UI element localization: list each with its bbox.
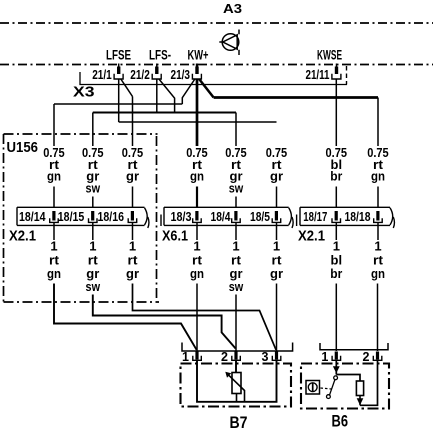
wire col6 below strip (276, 222, 278, 240)
svg-text:gn: gn (190, 169, 204, 184)
wire col3 upper (132, 97, 134, 147)
wire col8 upper (377, 98, 379, 147)
wire col5 upper (235, 113, 237, 147)
wire col7 to strip (335, 187, 337, 208)
wire 21/3 KW+ down bold (196, 79, 199, 146)
svg-text:21/1: 21/1 (92, 68, 112, 82)
svg-text:B7: B7 (230, 414, 248, 432)
B6 switch upper contact (334, 376, 338, 380)
connector pin 21/2 (156, 64, 158, 68)
B7 wiper arrowhead (225, 372, 231, 378)
wire col1 below strip (53, 222, 55, 240)
sensor B6 dash-dot box (301, 364, 389, 409)
B7 internal wire pin3 down (245, 360, 277, 402)
B6 mechanical link dashed (321, 388, 332, 389)
svg-text:1: 1 (321, 350, 328, 364)
B6 arrow down at resistor bottom (357, 398, 364, 405)
connector X3 bracket (80, 72, 347, 85)
svg-text:21/2: 21/2 (130, 68, 150, 82)
B7 resistor bottom lead (236, 394, 238, 402)
wire label col1 1 rt gn (47, 239, 61, 282)
B6 pin 1 (335, 352, 338, 360)
wire col6 to strip (276, 187, 278, 208)
svg-text:B6: B6 (332, 413, 349, 431)
svg-text:gn: gn (47, 169, 61, 184)
wire label col5 1 rt gr sw (229, 239, 244, 295)
wire label col6 0.75 rt gr (266, 145, 288, 183)
strip pin 18/4 (234, 211, 237, 221)
connector strip X2.1 right (297, 207, 395, 228)
wire col8 down to B6 pin2 (377, 284, 379, 352)
svg-text:1: 1 (182, 350, 189, 364)
strip pin 18/18 (376, 211, 379, 221)
svg-text:KW+: KW+ (188, 48, 209, 63)
B6 sensor element circle (308, 383, 317, 392)
wire label col8 1 rt gn (371, 239, 385, 282)
B7 pin header bracket (182, 343, 293, 352)
connector pin 21/3 (196, 64, 198, 68)
svg-text:18/15: 18/15 (58, 209, 85, 224)
wire col2 down and across to B7 pin2 (93, 295, 236, 349)
svg-text:br: br (330, 169, 342, 184)
svg-text:A3: A3 (223, 2, 242, 16)
svg-text:1: 1 (89, 239, 96, 254)
strip pin 18/14 (52, 211, 55, 221)
wire label col3 0.75 rt gr (122, 145, 144, 183)
wire col2 below strip (92, 222, 94, 240)
strip pin 18/5 (275, 211, 278, 221)
wire col3 down and across to B7 pin3 (133, 284, 277, 350)
wire LFS- run col2 to col5 (93, 112, 236, 114)
strip pin 18/16 (131, 211, 134, 221)
svg-text:21/11: 21/11 (306, 68, 330, 82)
svg-text:1: 1 (129, 239, 136, 254)
connector strip X2.1 left (17, 207, 149, 228)
wire 21/1 diagonal to col3 (121, 79, 133, 97)
wire label col5 0.75 rt gr sw (225, 145, 247, 195)
svg-text:21/3: 21/3 (171, 68, 191, 82)
svg-text:gr: gr (270, 266, 283, 281)
connector strip X6.1 (161, 207, 293, 228)
svg-text:gr: gr (126, 266, 139, 281)
B6 sensor element square (306, 381, 320, 395)
svg-text:18/18: 18/18 (345, 209, 371, 224)
wire label col4 1 rt gn (190, 239, 204, 282)
B7 wiper arrow diagonal (229, 375, 245, 402)
wire col2 upper (92, 113, 94, 147)
svg-text:gn: gn (371, 266, 385, 281)
B6 switch lever (330, 380, 335, 395)
B7 pin 2 (234, 352, 237, 360)
wire col4 down to B7 pin1 (196, 284, 198, 352)
wire 21/1 down (118, 79, 120, 122)
svg-text:gn: gn (190, 266, 204, 281)
svg-text:X6.1: X6.1 (162, 229, 188, 245)
B7 pin 1 (195, 352, 198, 360)
svg-text:KWSE: KWSE (317, 48, 342, 63)
svg-text:1: 1 (374, 239, 381, 254)
wire col7 down to B6 pin1 (335, 284, 337, 352)
wire label col8 0.75 rt gn (367, 145, 389, 183)
svg-text:X2.1: X2.1 (9, 229, 36, 245)
connector pin 21/11 (336, 64, 338, 68)
wire col5 below strip (235, 222, 237, 240)
wire col1 upper (53, 104, 55, 146)
wire col5 to strip (235, 197, 237, 208)
wire 21/2 diagonal (159, 79, 175, 113)
wire label col7 1 bl br (330, 239, 342, 282)
horn symbol in A3 (219, 30, 239, 56)
wire col6 down to B7 pin3 (276, 284, 278, 352)
svg-text:1: 1 (50, 239, 57, 254)
wire LFSE run to col6 (119, 121, 277, 123)
wire KW+ run to col8 bold (214, 96, 378, 99)
svg-text:18/17: 18/17 (303, 209, 327, 224)
wire label col7 0.75 bl br (326, 145, 348, 183)
B6 arrow down on pin1 wire (333, 366, 340, 373)
B6 internal wire pin1 down (335, 360, 337, 374)
strip pin 18/17 (335, 211, 338, 221)
svg-text:2: 2 (221, 350, 228, 364)
wire col1 down and across to B7 pin1 (54, 284, 197, 350)
wire col4 below strip (196, 222, 198, 240)
wire col1 to strip (53, 187, 55, 208)
B6 internal wire pin2 down (360, 360, 378, 405)
svg-text:gr: gr (270, 169, 283, 184)
B6 pin header bracket (320, 343, 388, 350)
strip pin 18/3 (195, 211, 198, 221)
connector pin 21/1 (118, 64, 120, 68)
svg-text:18/16: 18/16 (98, 209, 125, 224)
wire col2 to strip (92, 197, 94, 208)
svg-text:X2.1: X2.1 (298, 229, 325, 245)
B7 internal wire pin2 to resistor (235, 360, 237, 372)
wire 21/3 diagonal left (182, 79, 195, 104)
wire col7 below strip (335, 222, 337, 240)
svg-text:1: 1 (273, 239, 280, 254)
strip pin 18/15 (91, 211, 94, 221)
B6 sensor element bar (312, 383, 314, 391)
svg-text:U156: U156 (7, 140, 39, 156)
wire col4 to strip (196, 187, 198, 208)
svg-text:1: 1 (333, 239, 340, 254)
svg-text:sw: sw (229, 180, 244, 195)
svg-text:1: 1 (232, 239, 239, 254)
svg-text:18/4: 18/4 (211, 209, 232, 224)
svg-text:3: 3 (262, 350, 269, 364)
wire 21/11 down col7 (335, 79, 337, 146)
wire label col2 1 rt gr sw (86, 239, 101, 295)
B6 pin 2 (376, 352, 379, 360)
svg-text:LFSE: LFSE (106, 48, 131, 63)
B6 resistor body (356, 381, 363, 396)
svg-text:sw: sw (229, 279, 244, 294)
svg-text:1: 1 (193, 239, 200, 254)
svg-text:X3: X3 (73, 85, 95, 101)
B7 internal wire pin1 down (197, 360, 245, 402)
sensor B7 dash-dot box (181, 364, 292, 407)
B6 wire junction to resistor (336, 375, 360, 382)
component A3 boundary (top dash-dot line) (0, 22, 433, 24)
svg-text:gr: gr (126, 169, 139, 184)
B6 resistor bottom lead (359, 396, 361, 406)
wire label col3 1 rt gr (126, 239, 139, 282)
wire label col2 0.75 rt gr sw (82, 145, 104, 195)
B7 pin 3 (275, 352, 278, 360)
control unit U156 dash-dot box (4, 134, 160, 302)
svg-text:br: br (330, 266, 342, 281)
svg-text:gn: gn (371, 169, 385, 184)
wire label col6 1 rt gr (270, 239, 283, 282)
harness boundary (second dash-dot line) (0, 64, 433, 66)
wire col8 below strip (377, 222, 379, 240)
svg-text:2: 2 (363, 350, 370, 364)
B6 switch lower contact (327, 395, 331, 399)
svg-text:18/3: 18/3 (171, 209, 192, 224)
wire col8 to strip (377, 187, 379, 208)
wire label col4 0.75 rt gn (186, 145, 208, 183)
B7 variable resistor body (232, 373, 241, 394)
svg-text:gn: gn (47, 266, 61, 281)
wire 21/2 down (156, 79, 158, 113)
svg-text:sw: sw (86, 180, 101, 195)
connector X3 dashed riser (346, 66, 348, 85)
wire 21/3 diagonal right bold (199, 79, 214, 98)
svg-text:sw: sw (86, 279, 101, 294)
svg-text:LFS-: LFS- (149, 48, 171, 63)
wire label col1 0.75 rt gn (43, 145, 64, 183)
svg-text:18/14: 18/14 (19, 209, 46, 224)
wire col3 below strip (132, 222, 134, 240)
wire col3 to strip (132, 187, 134, 208)
wire col5 down to B7 pin2 (235, 295, 237, 352)
wire KW+ run to col1 (54, 103, 182, 105)
svg-text:18/5: 18/5 (250, 209, 270, 224)
